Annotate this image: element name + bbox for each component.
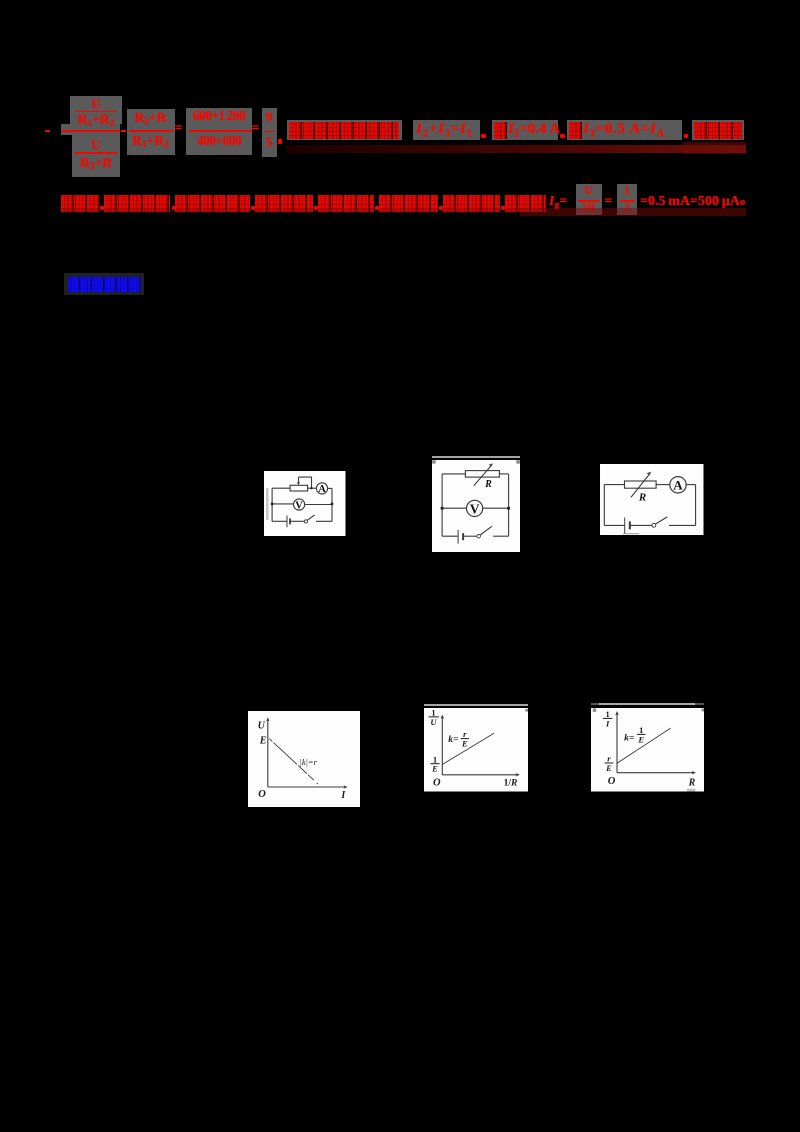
svg-text:E: E	[259, 736, 267, 747]
svg-text:U: U	[257, 721, 265, 732]
wire jumper over resistor	[299, 477, 312, 488]
wire bottom left	[604, 524, 624, 526]
wire right vertical	[331, 488, 333, 521]
wire left vertical	[271, 488, 273, 521]
wire ammeter to right	[328, 487, 332, 489]
resistor R (rheostat)	[625, 481, 657, 488]
wire right vertical	[508, 474, 510, 536]
switch S	[477, 534, 481, 538]
wire battery to switch	[630, 524, 652, 526]
axis 1/U (vertical)	[441, 717, 443, 775]
svg-text:I: I	[605, 718, 610, 728]
node junction left	[271, 503, 274, 506]
wiper arm	[298, 477, 300, 483]
wire resistor to ammeter	[308, 487, 317, 489]
fraction chip D 9/5	[262, 108, 277, 158]
svg-text:O: O	[608, 776, 616, 787]
dark red bleed under line 2	[62, 209, 520, 214]
corner notch left	[593, 708, 596, 711]
wire switch to right	[669, 524, 696, 526]
wire resistor to ammeter	[656, 483, 670, 485]
gray rule above graph 3	[591, 703, 704, 705]
svg-text:R: R	[688, 778, 696, 789]
chinese text chips line 1	[287, 120, 403, 141]
axis U (vertical)	[267, 720, 269, 787]
wire top left	[272, 487, 290, 489]
complex fraction chip A	[70, 96, 122, 124]
wire battery to switch	[290, 520, 304, 522]
battery base mark	[623, 532, 639, 534]
battery cell	[624, 517, 626, 533]
voltmeter V	[467, 500, 483, 516]
svg-text:E: E	[637, 735, 644, 745]
wire right vertical	[695, 484, 697, 525]
axis R (horizontal)	[617, 772, 694, 774]
wire left vertical	[441, 474, 443, 536]
rheostat arrow	[631, 473, 650, 497]
rheostat arrow	[474, 465, 492, 486]
svg-text:E: E	[461, 739, 468, 749]
wire battery to switch	[463, 535, 477, 537]
U-I line (dashed ends)	[269, 739, 318, 785]
data line	[442, 733, 494, 764]
svg-text:k=: k=	[448, 735, 458, 745]
svg-text:1: 1	[639, 725, 643, 735]
svg-text:R: R	[638, 491, 646, 503]
wire top left	[604, 483, 624, 485]
wire bottom left	[442, 535, 458, 537]
svg-text:U: U	[430, 717, 437, 727]
battery cell	[457, 530, 459, 544]
fraction chip 1/2	[617, 184, 637, 215]
ammeter A1	[316, 483, 327, 494]
corner handle left	[432, 460, 435, 463]
corner notch right	[702, 709, 704, 712]
ammeter A	[670, 476, 686, 492]
axis 1/R (horizontal)	[442, 774, 517, 776]
svg-text:O: O	[258, 789, 266, 800]
svg-text:E: E	[431, 764, 438, 774]
node junction jumper	[310, 487, 312, 489]
wire bottom right	[316, 520, 332, 522]
svg-text:V: V	[295, 500, 303, 511]
gray rule above box 2	[432, 456, 521, 458]
data line	[617, 728, 671, 763]
wiper arrowhead	[297, 482, 300, 485]
axis 1/I (vertical)	[616, 713, 618, 772]
svg-text:V: V	[470, 501, 480, 516]
svg-text:R: R	[484, 479, 492, 490]
corner handle right	[516, 460, 520, 463]
wire left vertical	[603, 484, 605, 525]
svg-text:|k|=r: |k|=r	[299, 757, 317, 767]
wire top right	[499, 473, 508, 475]
svg-text:1/R: 1/R	[504, 779, 518, 789]
corner notch	[525, 709, 528, 712]
resistor R (rheostat)	[465, 471, 499, 478]
voltmeter V1	[294, 499, 305, 510]
node junction right	[331, 503, 334, 506]
node junction right	[507, 507, 510, 510]
node junction left	[441, 507, 444, 510]
wire middle left	[272, 503, 293, 505]
battery cell	[286, 516, 288, 528]
rheostat arrowhead	[489, 463, 494, 466]
wire switch to right	[493, 535, 508, 537]
dark red bleed under line 1	[286, 145, 746, 154]
fraction chip C	[186, 108, 253, 156]
wire middle left	[442, 507, 466, 509]
axis I (horizontal)	[268, 786, 346, 788]
fraction chip U/2R	[576, 184, 602, 215]
wire top left	[442, 473, 465, 475]
rheostat arrowhead	[647, 471, 652, 474]
gray rule above graph 2	[424, 704, 528, 706]
switch S	[652, 523, 656, 527]
wire bottom left	[272, 520, 287, 522]
svg-text:A: A	[673, 477, 683, 492]
svg-text:A: A	[318, 484, 326, 495]
switch S1	[304, 520, 307, 523]
wire ammeter to right	[686, 483, 695, 485]
svg-text:k=: k=	[624, 734, 634, 744]
svg-text:O: O	[433, 777, 441, 788]
wire middle right	[483, 507, 509, 509]
wire middle right	[305, 504, 332, 506]
fraction chip B	[127, 109, 175, 155]
resistor R1 (rheostat body)	[290, 485, 308, 491]
svg-text:E: E	[605, 763, 612, 773]
gray mark under R	[687, 789, 695, 792]
